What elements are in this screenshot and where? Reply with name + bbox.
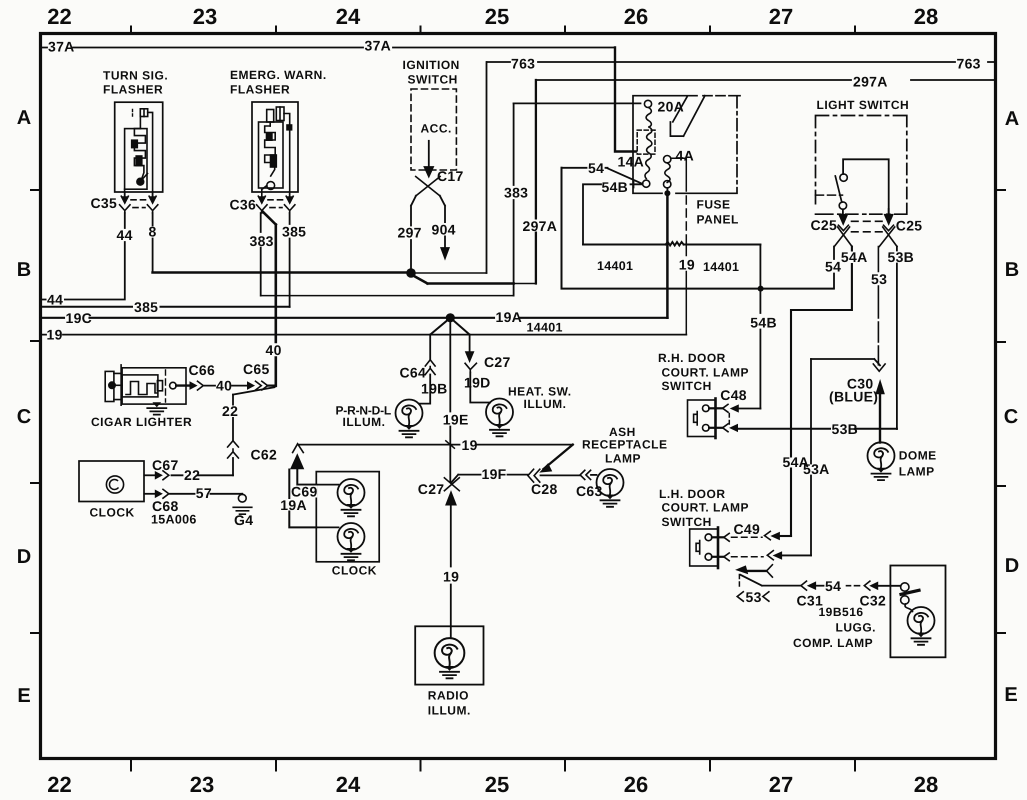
connector C68 — [144, 493, 155, 495]
wire 19C bus — [41, 317, 668, 319]
turn signal flasher box — [115, 102, 163, 192]
svg-text:C: C — [17, 406, 31, 428]
connector C48 — [709, 407, 722, 409]
radio illumination box — [415, 626, 483, 684]
svg-text:54: 54 — [825, 259, 841, 275]
wire 54 to LH switch (lower) — [767, 565, 773, 577]
wire 904 — [440, 196, 445, 248]
svg-text:SWITCH: SWITCH — [662, 515, 712, 529]
svg-text:23: 23 — [190, 772, 214, 797]
connector C31 — [801, 581, 807, 590]
connector C17 X — [416, 177, 440, 197]
wire 53A vertical — [810, 359, 812, 555]
wire 383 long horizontal — [261, 295, 514, 297]
svg-text:14401: 14401 — [703, 260, 739, 274]
junction node 19C/19A/19E — [446, 313, 455, 322]
fuse 4A — [664, 156, 671, 163]
svg-text:D: D — [1005, 555, 1019, 577]
fuse 20A — [644, 100, 651, 107]
svg-text:26: 26 — [624, 4, 648, 29]
light switch inner box — [843, 159, 889, 214]
svg-text:19: 19 — [47, 326, 63, 342]
wire 54A from C25 — [791, 247, 852, 536]
svg-text:IGNITION: IGNITION — [403, 58, 460, 72]
svg-text:C64: C64 — [400, 365, 427, 381]
connector C27 (19F) X — [444, 478, 459, 491]
svg-text:C17: C17 — [437, 168, 464, 184]
connector C65 — [248, 382, 255, 389]
wire 54B across — [583, 242, 760, 246]
svg-text:19: 19 — [443, 569, 459, 585]
emerg warn flasher box — [252, 102, 298, 192]
wire 297 — [411, 196, 416, 268]
fuse panel outline — [633, 96, 740, 194]
lugg lamp — [908, 607, 935, 634]
svg-text:L.H. DOOR: L.H. DOOR — [659, 487, 726, 501]
wire 383 vertical to fuse panel — [513, 103, 515, 295]
svg-text:385: 385 — [282, 224, 306, 240]
svg-text:FLASHER: FLASHER — [103, 83, 163, 97]
svg-text:40: 40 — [266, 342, 282, 358]
svg-text:14401: 14401 — [527, 321, 563, 335]
svg-text:B: B — [17, 259, 31, 281]
svg-text:C25: C25 — [896, 218, 923, 234]
svg-text:COURT. LAMP: COURT. LAMP — [662, 366, 750, 380]
lugg lamp socket — [901, 583, 909, 591]
svg-text:383: 383 — [504, 185, 528, 201]
svg-text:C32: C32 — [860, 593, 887, 609]
clock lamps: wire 19 end chevron — [293, 444, 304, 453]
cigar lighter output / connector C66 — [176, 384, 190, 386]
connector C27 (heat sw) — [469, 335, 471, 352]
svg-text:53B: 53B — [888, 249, 915, 265]
text labels: component titles — [90, 58, 937, 718]
svg-text:A: A — [17, 107, 31, 129]
node fan diagonals — [430, 318, 469, 335]
wire 297A top — [536, 79, 994, 81]
svg-text:C27: C27 — [418, 481, 445, 497]
4A top feed to 19 bus riser — [671, 158, 686, 191]
C27 up arrow — [446, 492, 456, 506]
svg-text:G4: G4 — [234, 512, 253, 528]
svg-text:19C: 19C — [66, 310, 93, 326]
connector C28 — [528, 469, 540, 482]
svg-text:LIGHT SWITCH: LIGHT SWITCH — [817, 98, 910, 112]
wire 19 bus — [41, 334, 686, 336]
wire 54 from fuse — [562, 168, 643, 184]
svg-text:SWITCH: SWITCH — [662, 379, 712, 393]
wire 385 from C36 — [289, 213, 291, 307]
svg-text:LAMP: LAMP — [899, 465, 935, 479]
svg-text:25: 25 — [485, 4, 509, 29]
svg-text:C63: C63 — [576, 483, 603, 499]
luggage compartment lamp box — [890, 566, 945, 658]
svg-text:8: 8 — [149, 224, 157, 240]
ash receptacle lamp — [597, 469, 624, 496]
svg-text:22: 22 — [47, 772, 71, 797]
svg-text:C27: C27 — [484, 354, 511, 370]
wire 763 vertical — [486, 62, 488, 273]
connector C49 — [712, 536, 723, 538]
row letters right — [1004, 108, 1019, 706]
C25 dashed separators — [852, 221, 883, 232]
svg-text:SWITCH: SWITCH — [408, 73, 458, 87]
svg-text:LAMP: LAMP — [605, 452, 641, 466]
svg-text:C25: C25 — [811, 217, 838, 233]
svg-text:383: 383 — [250, 233, 274, 249]
svg-text:C: C — [1004, 406, 1018, 428]
svg-text:904: 904 — [432, 222, 456, 238]
ground G4 — [238, 494, 246, 502]
wire 383 top horizontal to 20A fuse — [514, 102, 641, 104]
dome lamp — [868, 442, 895, 469]
svg-text:(BLUE): (BLUE) — [829, 389, 878, 405]
cigar lighter assembly — [105, 365, 186, 405]
ruler numbers bottom — [47, 772, 938, 797]
wire 19E vertical — [449, 321, 451, 482]
svg-text:37A: 37A — [365, 38, 392, 54]
ignition switch dashed box — [411, 89, 456, 170]
wire 22 horizontal to clock — [172, 474, 234, 476]
wire 8 — [152, 213, 154, 273]
connector C32 — [864, 581, 870, 590]
svg-text:B: B — [1005, 259, 1019, 281]
svg-text:20A: 20A — [658, 99, 685, 115]
svg-text:54: 54 — [825, 578, 841, 594]
P-R-N-D-L illumination lamp — [396, 400, 423, 427]
svg-text:53: 53 — [746, 589, 762, 605]
svg-text:297A: 297A — [853, 74, 888, 90]
emerg flasher internals — [259, 107, 292, 196]
svg-text:19: 19 — [679, 257, 695, 273]
svg-text:14A: 14A — [618, 154, 645, 170]
ruler numbers top — [47, 4, 938, 29]
svg-text:37A: 37A — [48, 39, 75, 55]
svg-text:CLOCK: CLOCK — [90, 506, 135, 520]
svg-text:ILLUM.: ILLUM. — [343, 415, 386, 429]
svg-text:RADIO: RADIO — [428, 689, 469, 703]
svg-text:TURN SIG.: TURN SIG. — [103, 69, 168, 83]
wire 19 diagonal to ash lamp — [544, 445, 573, 469]
svg-text:27: 27 — [769, 772, 793, 797]
svg-text:19: 19 — [462, 437, 478, 453]
svg-text:44: 44 — [47, 292, 63, 308]
svg-text:27: 27 — [769, 4, 793, 29]
light switch blade — [840, 174, 847, 181]
heat sw illumination lamp — [486, 399, 513, 426]
svg-text:LUGG.: LUGG. — [836, 621, 877, 635]
svg-text:ILLUM.: ILLUM. — [524, 397, 567, 411]
connector C63 — [580, 470, 591, 479]
svg-text:53: 53 — [871, 271, 887, 287]
LH door courtesy switch body — [690, 528, 718, 569]
svg-text:40: 40 — [216, 377, 232, 393]
connector C64 — [429, 335, 431, 360]
wire 19A to lower clock lamp — [289, 470, 316, 528]
svg-text:53B: 53B — [832, 421, 859, 437]
svg-text:C67: C67 — [152, 457, 179, 473]
svg-text:385: 385 — [134, 299, 158, 315]
clock box — [79, 461, 144, 502]
svg-text:C28: C28 — [531, 481, 558, 497]
svg-text:19A: 19A — [496, 309, 523, 325]
svg-text:D: D — [17, 546, 31, 568]
svg-text:C65: C65 — [243, 361, 270, 377]
wire 53B from C25 — [896, 247, 898, 430]
svg-text:C35: C35 — [91, 195, 118, 211]
svg-text:E: E — [17, 685, 30, 707]
MAIN WIRING GROUP — [41, 48, 994, 685]
wire to C63 — [541, 474, 580, 476]
svg-text:FLASHER: FLASHER — [230, 83, 290, 97]
svg-text:19B: 19B — [421, 380, 448, 396]
svg-text:ILLUM.: ILLUM. — [428, 704, 471, 718]
clock face — [106, 476, 123, 493]
wire 19D to heat sw lamp — [470, 373, 490, 403]
wire 44 — [41, 213, 125, 300]
svg-text:PANEL: PANEL — [697, 213, 739, 227]
svg-text:14401: 14401 — [597, 259, 633, 273]
connector C36 — [257, 192, 295, 213]
wire 40 heavy drop from C36 — [262, 211, 276, 386]
junction dot 8/297/763/383 — [406, 268, 416, 278]
svg-text:FUSE: FUSE — [697, 198, 731, 212]
crossover tick at 19E — [446, 441, 455, 448]
wire 53A branch — [811, 359, 880, 365]
svg-text:C66: C66 — [189, 362, 216, 378]
wire 383 from C36 — [260, 213, 262, 296]
wire 19 horizontal (clock/ash feed) — [298, 444, 573, 446]
ignition ACC output arrow — [428, 141, 430, 167]
svg-text:C49: C49 — [734, 521, 761, 537]
svg-text:C48: C48 — [720, 387, 747, 403]
svg-text:19D: 19D — [464, 375, 491, 391]
wire 22 vertical / connector C62 — [232, 395, 234, 441]
wire 54B down to C48 — [759, 245, 761, 409]
wire 53B across to C48 — [738, 428, 897, 430]
svg-text:22: 22 — [184, 467, 200, 483]
svg-text:CIGAR LIGHTER: CIGAR LIGHTER — [91, 415, 192, 429]
svg-text:28: 28 — [914, 4, 938, 29]
C69 feed arrow — [291, 455, 304, 469]
wire 19F — [451, 475, 528, 483]
wire 297A vertical — [535, 80, 537, 284]
wire 54 dash to C32 — [847, 585, 860, 587]
connector C35 — [120, 192, 158, 213]
svg-text:RECEPTACLE: RECEPTACLE — [582, 438, 667, 452]
junction dot 54/54B — [758, 286, 764, 292]
svg-text:57: 57 — [196, 485, 212, 501]
svg-text:19F: 19F — [482, 466, 507, 482]
svg-text:53A: 53A — [803, 461, 830, 477]
svg-text:26: 26 — [624, 772, 648, 797]
svg-text:19A: 19A — [280, 497, 307, 513]
wire 19 down to radio — [450, 505, 452, 638]
wire 40 horizontal — [205, 385, 248, 387]
svg-text:54B: 54B — [602, 179, 629, 195]
svg-text:EMERG. WARN.: EMERG. WARN. — [230, 68, 327, 82]
svg-text:25: 25 — [485, 772, 509, 797]
svg-text:C36: C36 — [230, 197, 257, 213]
svg-text:CLOCK: CLOCK — [332, 564, 377, 578]
fuse panel breaker symbol — [670, 96, 705, 136]
svg-text:A: A — [1005, 108, 1019, 130]
svg-text:297: 297 — [398, 225, 422, 241]
clock lamp 2 — [338, 523, 365, 550]
svg-text:C62: C62 — [251, 447, 278, 463]
wire 54 down and across — [562, 168, 834, 289]
svg-text:24: 24 — [336, 4, 361, 29]
svg-text:54A: 54A — [841, 249, 868, 265]
svg-text:15A006: 15A006 — [151, 513, 197, 527]
wire 19B to PRNDL lamp — [419, 375, 430, 404]
svg-text:DOME: DOME — [899, 449, 937, 463]
svg-text:COMP. LAMP: COMP. LAMP — [793, 636, 873, 650]
svg-text:44: 44 — [117, 227, 133, 243]
clock lamp 1 — [338, 479, 365, 506]
svg-text:22: 22 — [47, 4, 71, 29]
wire 8/297 heavy feed — [153, 271, 407, 274]
wire 53 dashed stub at LH switch — [738, 575, 740, 590]
wire 57 — [170, 493, 242, 495]
wire 763 top — [487, 61, 994, 63]
wire 763 link to junction — [415, 272, 487, 274]
wire 22 diagonal from C65 junction — [233, 387, 275, 394]
svg-text:763: 763 — [957, 56, 981, 72]
connector C67 — [144, 474, 155, 476]
dome lamp feed — [879, 394, 881, 443]
light switch dashed box — [816, 116, 907, 215]
svg-text:24: 24 — [336, 772, 361, 797]
svg-text:ACC.: ACC. — [421, 122, 452, 136]
wire 385 bus — [41, 306, 290, 308]
svg-text:COURT. LAMP: COURT. LAMP — [662, 501, 750, 515]
wire 37A vertical drop to fuse panel — [615, 48, 636, 152]
fuse panel bottom junction dot — [664, 190, 670, 196]
svg-text:297A: 297A — [523, 218, 558, 234]
svg-text:22: 22 — [222, 403, 238, 419]
wire 54 up to C25 — [833, 247, 835, 289]
svg-text:763: 763 — [511, 56, 535, 72]
wire 53 from C25 — [877, 247, 879, 365]
text labels: wire/connector ids — [47, 38, 981, 609]
svg-text:54B: 54B — [750, 315, 777, 331]
svg-text:C31: C31 — [797, 593, 824, 609]
connector C30 — [873, 364, 885, 371]
svg-text:19B516: 19B516 — [819, 605, 864, 619]
svg-text:4A: 4A — [676, 148, 695, 164]
turn sig flasher internals — [125, 109, 153, 196]
svg-text:E: E — [1004, 684, 1017, 706]
cigar lighter ground — [147, 402, 166, 414]
radio lamp — [435, 638, 465, 668]
svg-text:R.H. DOOR: R.H. DOOR — [658, 351, 726, 365]
svg-text:23: 23 — [193, 4, 217, 29]
wire 383 heavy link — [414, 276, 514, 284]
wire 54B at fuse — [583, 181, 643, 245]
fuse 14A dashed housing — [637, 130, 655, 154]
row letters left — [17, 107, 31, 707]
wire 297A jog to 383 junction — [514, 283, 536, 285]
wire 19 heavy trunk — [666, 193, 669, 317]
wire 37A top bus — [41, 47, 615, 49]
connector C25 right — [888, 209, 890, 215]
svg-text:54: 54 — [588, 160, 604, 176]
svg-text:19E: 19E — [443, 412, 469, 428]
svg-text:28: 28 — [914, 772, 938, 797]
RH door courtesy switch body — [688, 399, 716, 439]
clock illumination lamps box — [316, 472, 379, 562]
connector C25 left — [842, 209, 844, 215]
